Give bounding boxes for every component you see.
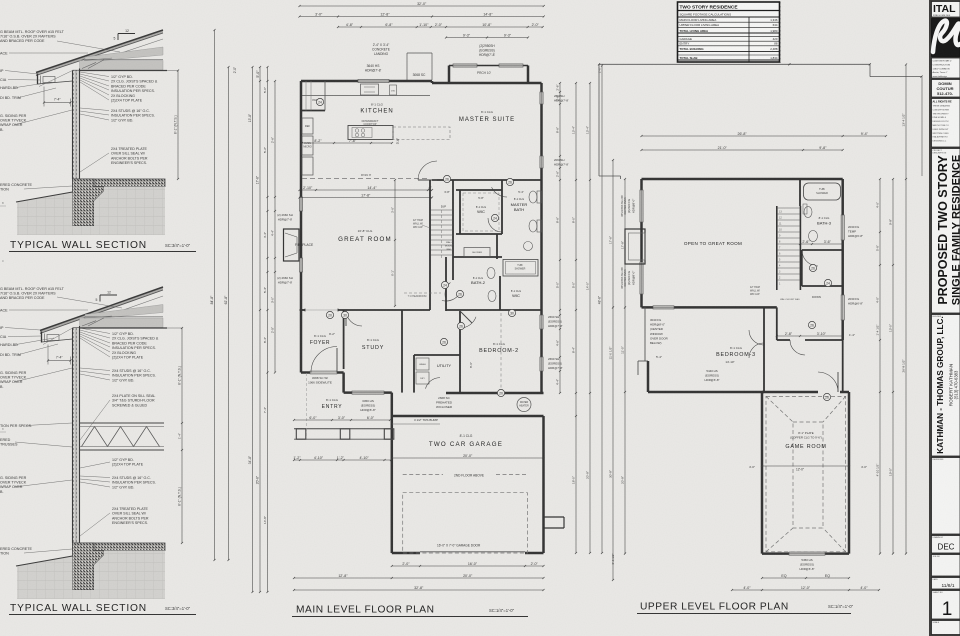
entry door arc [311, 347, 337, 373]
footing pier [73, 179, 105, 226]
tb: logo box [932, 19, 960, 57]
tb: rights box [932, 99, 960, 148]
bottom dims [392, 565, 544, 567]
rafter underside line [90, 296, 163, 322]
great room right wall / stairs [429, 180, 431, 310]
tb: firm name box [932, 2, 960, 18]
ceiling line [73, 70, 168, 72]
wall section 1 group [16, 29, 179, 235]
tb: builder box [932, 315, 960, 457]
walls around tub [496, 234, 498, 259]
ref / oven [302, 118, 313, 134]
game room ceiling dashes [766, 396, 846, 551]
bath-3 bottom wall [802, 249, 843, 251]
eave fascia [37, 74, 39, 85]
left window bump [625, 229, 645, 264]
garage slab dashed [403, 493, 528, 553]
foyer/study/great wall [300, 309, 306, 311]
kitchen/great room dashed beam [302, 178, 430, 180]
upper stairs [776, 206, 778, 290]
master door arc [418, 161, 437, 180]
porch wall with windows [448, 66, 451, 84]
fireplace [284, 229, 300, 261]
ceiling joist line [85, 58, 163, 60]
upper plan reference outline (floor below) [599, 63, 870, 65]
sub-soil hatch [17, 551, 165, 600]
hall door arcs [442, 293, 460, 301]
floor truss band [80, 422, 165, 424]
tub [503, 260, 538, 277]
exterior wall left [300, 81, 303, 373]
wic/masterbath walls [456, 189, 502, 191]
roof pitch marker [118, 33, 135, 35]
sq footage table [678, 2, 780, 62]
roof deck double line [40, 287, 163, 334]
wic door arc [488, 218, 502, 232]
hall walls to game room [776, 307, 778, 340]
master bath door arc [492, 187, 507, 197]
wall studs/siding [73, 328, 80, 543]
upper left dims [612, 160, 614, 580]
upper exterior walls [642, 178, 843, 181]
bedroom2/utility wall [459, 311, 461, 393]
bath-3 door arc [802, 253, 818, 266]
ceiling joist line [85, 316, 163, 318]
eave depth dim [43, 87, 45, 107]
garage walls [392, 415, 544, 418]
section height dimension [177, 71, 179, 180]
entry porch columns [294, 428, 391, 430]
ceiling insulation band [80, 61, 164, 71]
tb: date box [932, 578, 960, 590]
pantry [301, 110, 325, 112]
main plan top dims [300, 5, 544, 7]
table fold dotted line [780, 2, 782, 63]
master bath fixtures [529, 191, 537, 203]
foundation slab [73, 543, 166, 551]
eave depth dim [47, 345, 49, 365]
entry dims [294, 419, 390, 421]
bedroom3 closet arcs [749, 330, 764, 345]
study [343, 310, 345, 369]
tb: revisions box [932, 458, 960, 535]
eave fascia [41, 332, 43, 343]
exterior wall master top [432, 82, 542, 85]
long vertical sheet dims [214, 30, 216, 560]
hall dims [777, 335, 843, 337]
right dim columns [559, 83, 561, 393]
2nd floor above dashed line [403, 474, 443, 476]
foundation slab [73, 179, 166, 187]
tb: job box [932, 555, 960, 577]
kitchen island with cooktop [348, 126, 393, 140]
title block strip background [929, 0, 960, 636]
utility [414, 354, 460, 356]
bath2 fixtures [464, 248, 490, 257]
sub-soil hatch [17, 187, 165, 236]
game room door arc [818, 372, 838, 392]
tb: drawn by box [932, 536, 960, 554]
upper bottom dims [762, 577, 849, 579]
tb: address box [932, 58, 960, 78]
tb: scale box [932, 621, 960, 635]
bath-3 [799, 206, 801, 232]
bedroom2 door arc [460, 317, 476, 328]
concrete landing outline [406, 53, 408, 80]
bedroom2 bottom wall [446, 392, 544, 395]
water heater [517, 398, 531, 412]
bedroom3 walls [644, 307, 646, 361]
great room dims [300, 189, 433, 191]
grade line [16, 556, 73, 566]
interior: kitchen counter [302, 95, 430, 97]
wall: bottom of open area [642, 306, 777, 309]
ceiling line [73, 327, 168, 329]
rafter underside line [90, 39, 163, 63]
footing pier [73, 543, 105, 590]
bath2 walls [445, 257, 447, 311]
upper sloped insulation band [85, 47, 163, 62]
roof pitch marker [100, 294, 117, 296]
upper right dims [879, 179, 881, 554]
upper sloped insulation band [85, 305, 163, 320]
game room walls [761, 392, 764, 554]
master bottom wall [432, 179, 542, 181]
tb: project description box [932, 149, 960, 314]
entry front walls [301, 371, 310, 374]
exterior wall right [540, 83, 543, 393]
roof deck double line [36, 30, 163, 76]
struts near wall [82, 321, 96, 326]
stairs treads [431, 209, 454, 211]
tb: sheet box [932, 591, 960, 620]
garage bump right [544, 516, 565, 518]
grade line [16, 192, 73, 202]
wall section 2 group [16, 287, 183, 599]
struts near wall [82, 62, 96, 68]
study door arc [346, 310, 362, 326]
left dim columns [252, 67, 254, 592]
circled door numbers [316, 98, 323, 105]
upper plan top dims [642, 135, 887, 137]
exterior wall top [301, 80, 432, 83]
tub alcove top right [799, 179, 801, 206]
tb: contact box [932, 80, 960, 98]
section height dimension [181, 328, 183, 543]
ceiling insulation band [80, 318, 164, 328]
kitchen dim row [302, 142, 392, 144]
wall studs/siding [73, 71, 80, 180]
right wall [841, 179, 844, 340]
